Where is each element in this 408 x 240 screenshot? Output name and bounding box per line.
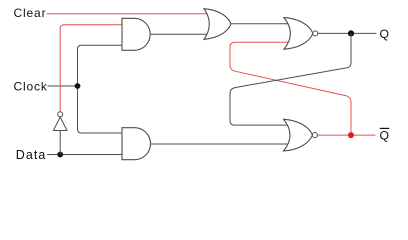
wire Data input to AND2 lower input [47, 154, 122, 156]
wire AND2 output to NOR2 lower input [151, 143, 291, 145]
svg-text:Q: Q [380, 129, 389, 143]
wire inverter output to AND1 upper input (red, logic high) [60, 25, 122, 112]
wire data junction up to inverter input [59, 131, 61, 155]
label Clock [14, 79, 48, 93]
node data junction [57, 152, 63, 158]
NOR gate NOR2 (bottom right) [284, 119, 318, 151]
AND gate AND1 (top) [122, 18, 150, 50]
NOR gate NOR1 (top right) [284, 18, 318, 50]
label Qbar with overline [380, 128, 390, 142]
wire Qbar feedback to NOR1 lower input (red, logic high) [230, 42, 351, 135]
label Q [380, 27, 389, 41]
svg-text:Data: Data [16, 148, 47, 162]
wire Clock input [48, 85, 78, 87]
wire OR output to NOR1 upper input [231, 23, 290, 25]
svg-text:Q: Q [380, 27, 389, 41]
svg-text:Clock: Clock [14, 79, 48, 93]
label Data [16, 148, 47, 162]
svg-text:Clear: Clear [14, 6, 47, 20]
node clock junction [75, 83, 81, 89]
wire NOR1 output to Q [318, 32, 377, 34]
AND gate AND2 (bottom) [122, 128, 151, 160]
inverter (NOT gate, pointing up) [53, 112, 67, 131]
wire Clock branch down to AND2 upper input [78, 86, 123, 133]
wire Q feedback to NOR2 upper input [230, 33, 351, 125]
OR gate [204, 9, 231, 40]
wire Clock branch up to AND1 lower input [78, 45, 123, 86]
wire Clear input to OR gate top input (red, logic high) [47, 13, 209, 15]
label Clear [14, 6, 47, 20]
node Q junction [348, 30, 354, 36]
node Qbar junction (red) [348, 132, 354, 138]
wire NOR2 output to Qbar (red, logic high) [317, 134, 375, 136]
wire AND1 output to OR gate lower input [150, 33, 208, 35]
